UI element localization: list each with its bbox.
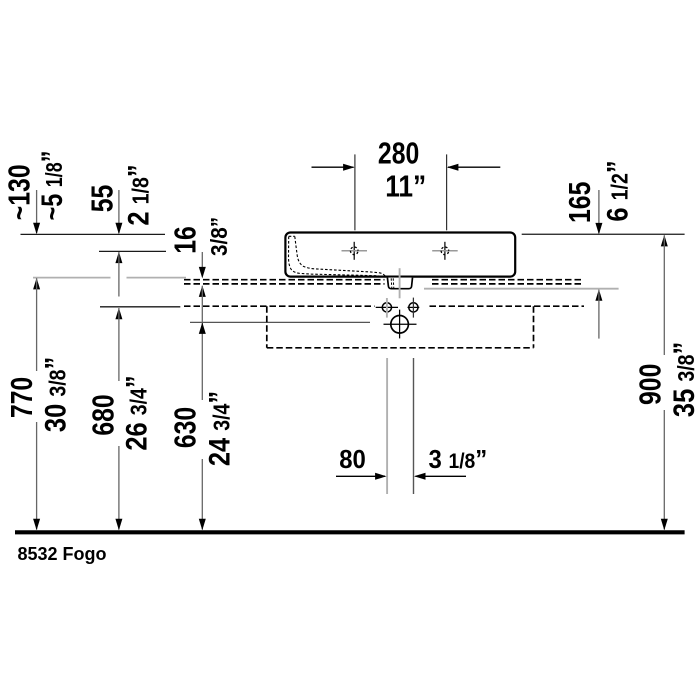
tap hole left: centerline horizontal grey [342, 250, 368, 252]
280 extension line right [446, 154, 448, 230]
svg-text:900: 900 [633, 364, 667, 405]
rim-level extension line left [21, 233, 166, 235]
installation zone dashed rectangle left edge [266, 306, 268, 348]
installation zone dashed rectangle bottom edge [267, 347, 534, 349]
fixing hole right horizontal centerline [408, 306, 420, 308]
svg-text:6 1/2”: 6 1/2” [600, 160, 633, 221]
80-dim extension line left (grey) [386, 358, 388, 494]
svg-text:680: 680 [86, 394, 120, 435]
svg-text:280: 280 [378, 136, 419, 170]
fixing hole left vertical centerline (grey) [386, 298, 388, 318]
770 dimension line [33, 278, 40, 290]
svg-text:8532 Fogo: 8532 Fogo [18, 544, 107, 564]
installation zone dashed rectangle right edge [533, 306, 535, 348]
fixing hole left circle [382, 303, 391, 312]
80 dimension right arrow [416, 475, 467, 477]
basin interior rim edge [289, 235, 295, 237]
280 dimension right arrow [448, 166, 500, 168]
55 lower reference line [99, 250, 166, 252]
drain outlet body [387, 278, 412, 289]
svg-text:35 3/8”: 35 3/8” [667, 342, 700, 417]
svg-text:26 3/4”: 26 3/4” [119, 375, 152, 450]
165 dimension lower arrow and stem [595, 289, 602, 301]
svg-text:630: 630 [168, 407, 202, 448]
55 dimension lower arrow and overshoot [115, 252, 122, 264]
svg-text:24 3/4”: 24 3/4” [202, 391, 235, 466]
svg-text:770: 770 [4, 377, 38, 418]
55 dimension upper stem and arrow [118, 190, 120, 233]
16 dimension upper stem and arrow [201, 252, 203, 268]
washbasin outline [285, 233, 515, 277]
900 dimension line [661, 235, 668, 247]
16 dimension lower arrow [199, 285, 206, 297]
hidden dashed line 1 [184, 279, 385, 281]
630 dimension line [201, 286, 203, 400]
80 dimension left arrow [336, 475, 385, 477]
svg-text:80: 80 [339, 445, 366, 474]
svg-text:3 1/8”: 3 1/8” [429, 445, 488, 474]
680 reference line [100, 306, 180, 308]
165 dimension upper stem and arrow [598, 190, 600, 233]
waste pipe vertical centerline [399, 310, 401, 339]
rim-level extension line right [522, 233, 685, 235]
waste pipe horizontal centerline [384, 323, 417, 325]
ceramic underside reference line (grey) [33, 277, 111, 279]
fixing hole left horizontal centerline [376, 306, 398, 308]
drain centerline (grey vertical) [399, 268, 401, 298]
fixing hole right circle [409, 303, 418, 312]
svg-text:~5 1/8”: ~5 1/8” [35, 151, 68, 221]
hidden dashed line 2 [184, 283, 385, 285]
~130 dimension stem and arrow [36, 190, 38, 233]
280 dimension left arrow [312, 166, 354, 168]
svg-text:~130: ~130 [2, 164, 36, 220]
680 dimension line [115, 308, 122, 320]
svg-text:30 3/8”: 30 3/8” [39, 357, 72, 432]
siphon reference line (grey) [424, 288, 619, 290]
hidden dashed line 3 [184, 305, 375, 307]
basin interior hidden profile (inner surface) [295, 237, 386, 277]
tap hole right: circle [441, 247, 449, 255]
630 reference line [190, 321, 370, 323]
280 extension line left [354, 154, 356, 230]
basin interior hidden profile (shell back edge) [289, 237, 382, 277]
drain hidden edge 2 [392, 278, 395, 288]
svg-text:55: 55 [85, 185, 119, 213]
svg-text:16: 16 [168, 226, 202, 254]
drain hidden edge 1 [390, 278, 393, 288]
svg-text:3/8”: 3/8” [206, 217, 232, 256]
tap hole left: centerline vertical [353, 242, 355, 260]
svg-text:2 1/8”: 2 1/8” [121, 164, 154, 225]
waste pipe circle [391, 316, 409, 334]
80-dim extension line right [413, 358, 415, 494]
tap hole right: centerline vertical [444, 242, 446, 260]
tap hole right: centerline horizontal grey [432, 250, 458, 252]
floor line [15, 530, 685, 534]
fixing hole right vertical centerline [412, 298, 414, 318]
tap hole left: circle [350, 247, 358, 255]
svg-text:11”: 11” [385, 169, 426, 203]
svg-text:165: 165 [563, 182, 597, 223]
